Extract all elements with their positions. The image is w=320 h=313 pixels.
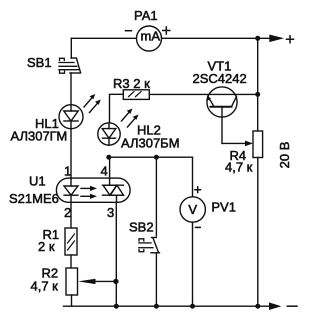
node R2 wiper junction <box>113 279 118 284</box>
node top-right junction <box>255 36 260 41</box>
meter PA1 <box>137 26 162 51</box>
opto U1 LED (pins 1-2) <box>64 178 78 202</box>
label PV1 minus <box>196 226 201 228</box>
svg-text:R3 2 к: R3 2 к <box>113 76 150 91</box>
svg-text:АЛ307БМ: АЛ307БМ <box>121 136 180 151</box>
node bottom rail SB2 <box>154 304 159 309</box>
resistor R4 (variable) <box>253 131 263 158</box>
wire bottom rail <box>64 305 270 307</box>
svg-text:2SC4242: 2SC4242 <box>193 71 247 86</box>
wire left column SB1 top lead <box>70 38 72 58</box>
wire PV1 bottom <box>192 222 194 306</box>
wire R3 left to HL2 <box>110 94 124 123</box>
optocoupler U1 body <box>56 178 130 202</box>
svg-text:SB1: SB1 <box>27 55 52 70</box>
switch SB1 <box>59 58 81 73</box>
resistor R3 <box>123 90 149 100</box>
svg-text:1: 1 <box>64 164 71 179</box>
switch SB2 <box>139 157 160 306</box>
LED HL2 <box>98 123 120 145</box>
wire top rail right (PA1 to junction and + arrow) <box>162 37 270 39</box>
svg-text:U1: U1 <box>29 174 46 189</box>
wire R2 bottom <box>71 295 73 306</box>
opto U1 triac (pins 4-3) <box>103 157 124 202</box>
svg-text:АЛ307ГМ: АЛ307ГМ <box>11 129 68 144</box>
node junction HL2/pin4 <box>106 155 111 160</box>
svg-text:4,7 к: 4,7 к <box>31 279 59 294</box>
terminal arrow + (top right) <box>269 35 284 43</box>
wire top rail left (corner to PA1) <box>71 37 136 39</box>
wire opto pin2 to R1 <box>70 202 72 228</box>
svg-text:4,7 к: 4,7 к <box>225 159 253 174</box>
node bottom rail R4 <box>255 304 260 309</box>
wire opto pin3 to bottom rail <box>115 202 117 306</box>
label PA1 minus <box>126 30 132 32</box>
node bottom rail PV1 <box>190 304 195 309</box>
wire PV1 top <box>192 157 194 197</box>
opto U1 light arrows <box>81 186 97 199</box>
resistor R1 <box>65 228 77 255</box>
svg-text:2: 2 <box>64 205 71 220</box>
arrow HL2 light 1 <box>122 111 131 122</box>
wire VT1 base to R4 wiper <box>222 142 245 144</box>
label minus terminal (bottom right) <box>287 305 297 307</box>
wire R2 wiper <box>95 280 116 282</box>
label plus terminal (top right) <box>287 36 294 43</box>
svg-text:20 В: 20 В <box>277 142 292 169</box>
wire SB1 to HL1 <box>70 73 72 105</box>
LED HL1 <box>59 105 83 129</box>
label PV1 plus <box>195 187 201 193</box>
transistor VT1 <box>207 87 237 143</box>
svg-text:mA: mA <box>141 28 161 43</box>
voltmeter PV1 <box>180 197 205 222</box>
node bottom rail pin3 <box>114 304 119 309</box>
wire R1 to R2 <box>70 255 72 268</box>
node VT1 collector junction <box>255 92 260 97</box>
arrow HL1 light 2 <box>90 102 100 113</box>
svg-text:PV1: PV1 <box>211 199 236 214</box>
svg-text:4: 4 <box>101 164 108 179</box>
svg-text:2 к: 2 к <box>38 239 55 254</box>
label PA1 plus <box>163 27 170 34</box>
wire HL1 to opto pin 1 <box>70 129 72 179</box>
arrow HL1 light 1 <box>84 96 94 107</box>
node junction SB2 top <box>154 155 159 160</box>
svg-text:V: V <box>188 202 197 217</box>
wire mid horizontal (HL2 junction to PV1) <box>109 156 193 158</box>
terminal arrow - (bottom right) <box>269 302 281 310</box>
svg-text:PA1: PA1 <box>134 8 158 23</box>
wire R3 right to VT1 and junction <box>149 93 257 95</box>
svg-text:3: 3 <box>107 205 114 220</box>
wire right rail junction to R4 <box>257 38 259 131</box>
svg-text:SB2: SB2 <box>129 220 154 235</box>
wire R4 to bottom rail <box>257 158 259 307</box>
arrow HL2 light 2 <box>128 117 137 128</box>
resistor R2 (variable) <box>66 268 78 295</box>
svg-text:S21ME6: S21ME6 <box>9 191 59 206</box>
